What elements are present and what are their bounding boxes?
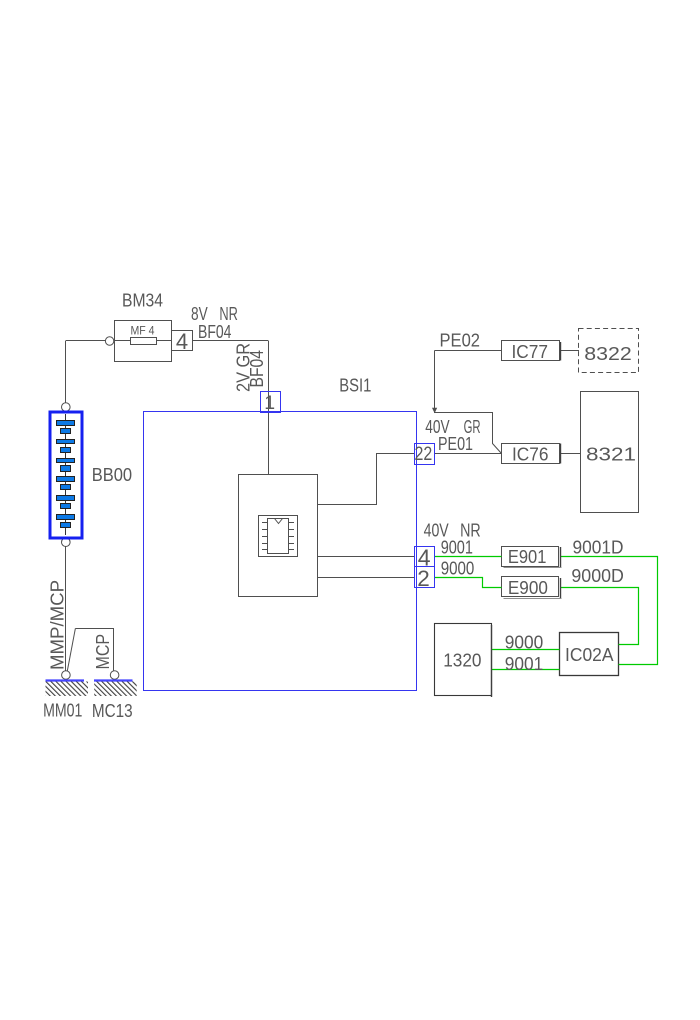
svg-text:9000D: 9000D (571, 566, 624, 586)
svg-text:4: 4 (176, 329, 188, 354)
svg-text:E901: E901 (508, 547, 547, 567)
svg-text:1: 1 (264, 392, 275, 414)
svg-text:PE01: PE01 (438, 434, 473, 454)
svg-text:9001D: 9001D (573, 538, 624, 558)
svg-text:PE02: PE02 (440, 331, 481, 351)
svg-text:IC77: IC77 (512, 342, 549, 362)
svg-text:IC02A: IC02A (565, 645, 614, 665)
svg-text:8322: 8322 (584, 344, 632, 364)
svg-text:MMP/MCP: MMP/MCP (48, 580, 68, 670)
svg-text:1320: 1320 (443, 651, 481, 671)
svg-text:MM01: MM01 (43, 700, 82, 720)
svg-text:MCP: MCP (93, 634, 113, 670)
svg-text:9001: 9001 (441, 538, 473, 558)
svg-text:22: 22 (415, 443, 433, 465)
svg-text:BB00: BB00 (92, 465, 132, 485)
svg-text:9001: 9001 (505, 654, 544, 674)
svg-text:9000: 9000 (505, 633, 544, 653)
svg-text:MF 4: MF 4 (131, 323, 155, 337)
svg-text:8321: 8321 (586, 445, 636, 465)
svg-text:MC13: MC13 (92, 701, 133, 721)
svg-text:BSI1: BSI1 (339, 375, 371, 395)
svg-text:2: 2 (417, 566, 430, 591)
svg-text:9000: 9000 (441, 558, 475, 578)
svg-text:E900: E900 (508, 578, 548, 598)
svg-text:BF04: BF04 (198, 322, 231, 342)
svg-text:BM34: BM34 (122, 291, 163, 311)
svg-text:BF04: BF04 (247, 350, 267, 388)
svg-text:IC76: IC76 (512, 445, 549, 465)
